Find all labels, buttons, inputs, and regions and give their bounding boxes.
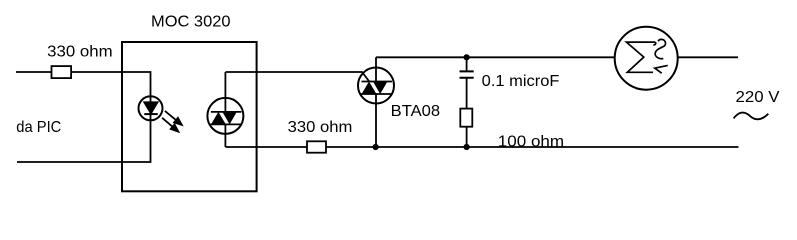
- svg-text:330 ohm: 330 ohm: [288, 119, 353, 136]
- svg-text:da PIC: da PIC: [16, 119, 61, 136]
- svg-text:330 ohm: 330 ohm: [47, 44, 112, 61]
- svg-text:MOC 3020: MOC 3020: [151, 13, 231, 30]
- svg-text:100 ohm: 100 ohm: [498, 134, 564, 151]
- svg-text:220 V: 220 V: [736, 89, 780, 106]
- svg-text:0.1 microF: 0.1 microF: [482, 73, 560, 90]
- svg-text:BTA08: BTA08: [391, 103, 440, 120]
